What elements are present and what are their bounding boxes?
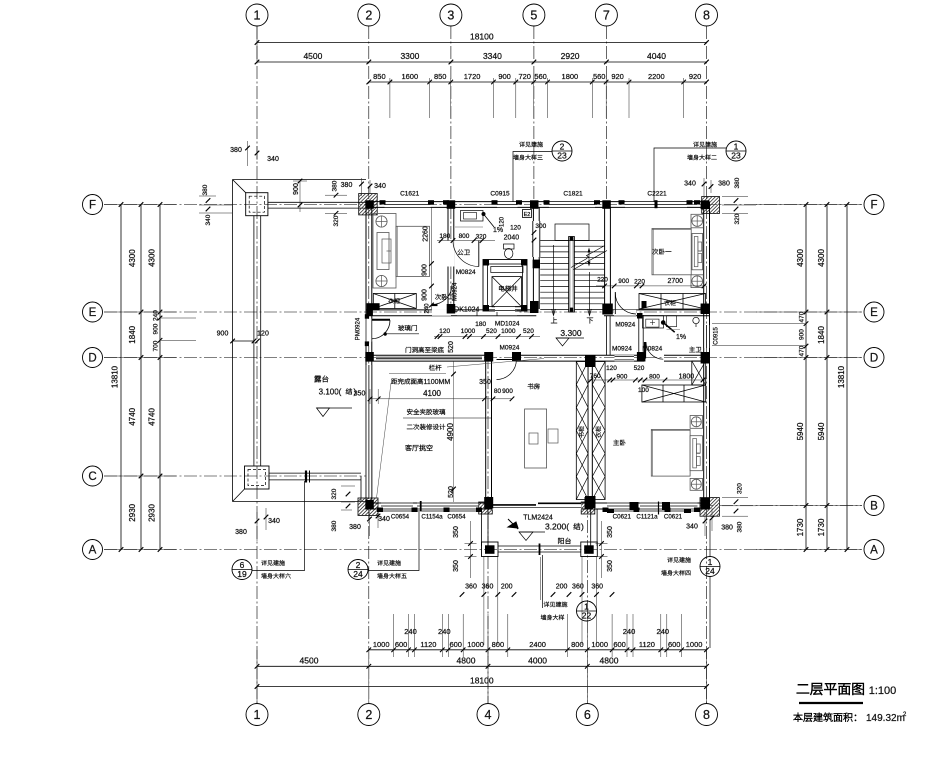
svg-text:380: 380 bbox=[235, 529, 247, 536]
svg-text:120: 120 bbox=[439, 328, 450, 335]
svg-text:180: 180 bbox=[439, 233, 450, 240]
svg-text:600: 600 bbox=[395, 640, 408, 649]
svg-text:340: 340 bbox=[684, 181, 696, 188]
svg-text:TLM2424: TLM2424 bbox=[523, 515, 553, 522]
svg-text:C: C bbox=[88, 471, 96, 483]
svg-text:2700: 2700 bbox=[668, 278, 684, 285]
svg-text:M0824: M0824 bbox=[456, 269, 476, 276]
svg-text:350: 350 bbox=[354, 391, 366, 398]
svg-text:520: 520 bbox=[634, 365, 645, 372]
svg-text:900: 900 bbox=[153, 323, 160, 334]
svg-text:240: 240 bbox=[153, 310, 160, 321]
svg-text:): ) bbox=[581, 522, 584, 532]
svg-text:19: 19 bbox=[237, 569, 247, 579]
svg-text:4500: 4500 bbox=[303, 51, 322, 61]
svg-text:1000: 1000 bbox=[501, 328, 516, 335]
svg-text:4800: 4800 bbox=[457, 655, 476, 665]
svg-text:720: 720 bbox=[518, 72, 531, 81]
svg-text:22: 22 bbox=[582, 611, 592, 621]
svg-text:760: 760 bbox=[590, 373, 601, 380]
svg-text:560: 560 bbox=[534, 72, 547, 81]
svg-text:4100: 4100 bbox=[423, 389, 441, 398]
svg-text:4300: 4300 bbox=[148, 249, 157, 267]
svg-text:520: 520 bbox=[486, 328, 497, 335]
svg-text:350: 350 bbox=[453, 526, 460, 538]
svg-text:2200: 2200 bbox=[648, 72, 665, 81]
svg-text:600: 600 bbox=[449, 640, 462, 649]
svg-text:4: 4 bbox=[485, 708, 492, 722]
svg-text:1000: 1000 bbox=[373, 640, 390, 649]
svg-text:360: 360 bbox=[591, 584, 603, 591]
svg-text:340: 340 bbox=[686, 524, 698, 531]
svg-text:4040: 4040 bbox=[647, 51, 666, 61]
svg-text:MD1024: MD1024 bbox=[495, 320, 520, 327]
svg-text:900: 900 bbox=[616, 374, 627, 381]
svg-text:M0924: M0924 bbox=[612, 346, 632, 353]
svg-text:2930: 2930 bbox=[148, 504, 157, 522]
svg-text:1840: 1840 bbox=[128, 325, 137, 343]
svg-text:F: F bbox=[89, 200, 96, 212]
svg-text:320: 320 bbox=[736, 483, 743, 494]
svg-text:1720: 1720 bbox=[464, 72, 481, 81]
svg-text:1120: 1120 bbox=[420, 640, 436, 649]
svg-text:380: 380 bbox=[230, 147, 242, 154]
svg-text:2920: 2920 bbox=[561, 51, 580, 61]
svg-text:4300: 4300 bbox=[817, 249, 826, 267]
svg-text:700: 700 bbox=[153, 340, 160, 351]
svg-text:1600: 1600 bbox=[401, 72, 418, 81]
svg-text:5: 5 bbox=[530, 8, 537, 22]
svg-text:3: 3 bbox=[447, 8, 454, 22]
svg-text:D: D bbox=[88, 353, 96, 365]
svg-text:C1821: C1821 bbox=[563, 190, 583, 197]
svg-text:8: 8 bbox=[703, 8, 710, 22]
svg-text:2: 2 bbox=[365, 708, 372, 722]
svg-text:800: 800 bbox=[649, 374, 660, 381]
svg-text:380: 380 bbox=[332, 180, 339, 191]
svg-text:1000: 1000 bbox=[461, 328, 476, 335]
svg-text:1: 1 bbox=[254, 708, 261, 722]
svg-text:120: 120 bbox=[257, 331, 269, 338]
svg-text:900: 900 bbox=[502, 388, 513, 395]
svg-text:13810: 13810 bbox=[111, 365, 120, 388]
svg-text:6: 6 bbox=[584, 708, 591, 722]
svg-text:100: 100 bbox=[638, 387, 649, 394]
svg-text:3300: 3300 bbox=[400, 51, 419, 61]
svg-text:23: 23 bbox=[557, 151, 567, 161]
svg-text:C0621: C0621 bbox=[664, 514, 683, 521]
svg-text:A: A bbox=[89, 545, 97, 557]
svg-text:340: 340 bbox=[374, 183, 386, 190]
svg-text:240: 240 bbox=[404, 627, 417, 636]
svg-text:340: 340 bbox=[378, 516, 390, 523]
svg-text:1000: 1000 bbox=[467, 640, 484, 649]
svg-text:1%: 1% bbox=[493, 227, 503, 234]
svg-text:1:100: 1:100 bbox=[869, 685, 897, 697]
svg-text:1100MM: 1100MM bbox=[424, 379, 451, 386]
svg-text:900: 900 bbox=[799, 329, 806, 340]
svg-text:2400: 2400 bbox=[529, 640, 546, 649]
svg-text:200: 200 bbox=[501, 584, 513, 591]
svg-text:4300: 4300 bbox=[128, 249, 137, 267]
svg-text:8: 8 bbox=[703, 708, 710, 722]
svg-text:23: 23 bbox=[731, 151, 741, 161]
svg-text:4500: 4500 bbox=[300, 655, 319, 665]
svg-text:C0621: C0621 bbox=[613, 514, 632, 521]
svg-text:120: 120 bbox=[500, 216, 506, 227]
svg-text:900: 900 bbox=[498, 72, 511, 81]
svg-text:470: 470 bbox=[799, 311, 806, 322]
svg-text:900: 900 bbox=[422, 289, 429, 301]
svg-text:B: B bbox=[870, 501, 878, 513]
svg-text:C0654: C0654 bbox=[447, 514, 466, 521]
svg-text:M0924: M0924 bbox=[453, 282, 459, 301]
svg-text:120: 120 bbox=[510, 225, 521, 232]
svg-text:E: E bbox=[89, 307, 97, 319]
svg-text:149.32m: 149.32m bbox=[866, 713, 905, 724]
svg-text:380: 380 bbox=[331, 520, 338, 531]
svg-text:M0924: M0924 bbox=[615, 322, 635, 329]
svg-text:1800: 1800 bbox=[562, 72, 579, 81]
svg-text:320: 320 bbox=[734, 213, 741, 224]
svg-text:520: 520 bbox=[523, 328, 534, 335]
svg-text:920: 920 bbox=[611, 72, 624, 81]
svg-text:18100: 18100 bbox=[470, 32, 494, 42]
svg-text:1000: 1000 bbox=[591, 640, 608, 649]
svg-text:240: 240 bbox=[623, 627, 636, 636]
svg-text:380: 380 bbox=[349, 524, 361, 531]
svg-text:600: 600 bbox=[613, 640, 626, 649]
svg-text:350: 350 bbox=[607, 526, 614, 538]
svg-text:240: 240 bbox=[657, 627, 670, 636]
svg-text:M0824: M0824 bbox=[642, 346, 662, 353]
svg-text:380: 380 bbox=[734, 177, 741, 188]
svg-text:1%: 1% bbox=[676, 334, 686, 341]
svg-text:360: 360 bbox=[465, 584, 477, 591]
svg-text:C1621: C1621 bbox=[400, 190, 420, 197]
svg-text:2930: 2930 bbox=[128, 503, 137, 521]
svg-text:320: 320 bbox=[331, 488, 338, 499]
svg-text:900: 900 bbox=[217, 331, 229, 338]
svg-text:200: 200 bbox=[556, 584, 568, 591]
svg-text:4300: 4300 bbox=[796, 249, 805, 267]
svg-text:380: 380 bbox=[721, 525, 733, 532]
svg-text:240: 240 bbox=[438, 627, 451, 636]
svg-text:380: 380 bbox=[202, 184, 209, 195]
svg-text:1840: 1840 bbox=[817, 326, 826, 344]
svg-text:1120: 1120 bbox=[639, 640, 655, 649]
svg-text:1: 1 bbox=[254, 8, 261, 22]
svg-text:340: 340 bbox=[205, 214, 212, 225]
svg-text:4740: 4740 bbox=[128, 407, 137, 425]
svg-text:900: 900 bbox=[618, 278, 629, 285]
svg-text:13810: 13810 bbox=[837, 365, 846, 388]
svg-text:320: 320 bbox=[333, 215, 340, 226]
svg-text:1730: 1730 bbox=[796, 518, 805, 536]
svg-text:120: 120 bbox=[606, 365, 617, 372]
svg-text:7: 7 bbox=[603, 8, 610, 22]
svg-text:2260: 2260 bbox=[423, 226, 430, 242]
svg-text:360: 360 bbox=[572, 584, 584, 591]
svg-text:E2: E2 bbox=[524, 212, 531, 218]
svg-text:1000: 1000 bbox=[686, 640, 703, 649]
svg-text:2: 2 bbox=[365, 8, 372, 22]
svg-text:380: 380 bbox=[736, 521, 743, 532]
svg-text:4800: 4800 bbox=[600, 655, 619, 665]
svg-text:340: 340 bbox=[267, 156, 279, 163]
svg-text:DK1024: DK1024 bbox=[454, 307, 479, 314]
svg-text:380: 380 bbox=[341, 182, 353, 189]
svg-text:240: 240 bbox=[425, 303, 431, 314]
svg-text:C1121a: C1121a bbox=[636, 514, 658, 521]
svg-text:300: 300 bbox=[535, 223, 546, 230]
svg-text:D: D bbox=[870, 353, 878, 365]
svg-text:800: 800 bbox=[459, 233, 470, 240]
svg-text:350: 350 bbox=[453, 560, 460, 572]
svg-text:3.300: 3.300 bbox=[560, 328, 582, 338]
svg-text:1730: 1730 bbox=[817, 518, 826, 536]
svg-text:80: 80 bbox=[494, 388, 502, 395]
svg-text:18100: 18100 bbox=[470, 675, 494, 685]
svg-text:900: 900 bbox=[422, 264, 429, 276]
svg-text:360: 360 bbox=[482, 584, 494, 591]
svg-text:C1154a: C1154a bbox=[421, 514, 443, 521]
svg-text:E: E bbox=[870, 307, 878, 319]
svg-text:850: 850 bbox=[434, 72, 447, 81]
svg-text:920: 920 bbox=[689, 72, 702, 81]
svg-text:C2221: C2221 bbox=[647, 190, 667, 197]
svg-text:3.100(: 3.100( bbox=[319, 388, 342, 397]
svg-text:560: 560 bbox=[593, 72, 606, 81]
svg-text:F: F bbox=[870, 200, 877, 212]
svg-text:520: 520 bbox=[448, 341, 455, 353]
svg-text:4740: 4740 bbox=[148, 408, 157, 426]
svg-text:350: 350 bbox=[607, 560, 614, 572]
svg-text:220: 220 bbox=[597, 277, 608, 284]
svg-text:2040: 2040 bbox=[504, 235, 520, 242]
svg-text:5940: 5940 bbox=[796, 422, 805, 440]
svg-text:C0915: C0915 bbox=[714, 327, 720, 345]
svg-text:24: 24 bbox=[705, 566, 715, 576]
svg-text:PM0924: PM0924 bbox=[356, 317, 362, 340]
svg-text:A: A bbox=[870, 545, 878, 557]
svg-text:3340: 3340 bbox=[483, 51, 502, 61]
svg-text:1800: 1800 bbox=[679, 374, 695, 381]
svg-text:380: 380 bbox=[718, 181, 730, 188]
svg-text:C0915: C0915 bbox=[490, 190, 510, 197]
svg-text:600: 600 bbox=[668, 640, 681, 649]
svg-text:350: 350 bbox=[479, 379, 491, 386]
svg-text:4000: 4000 bbox=[528, 655, 547, 665]
svg-text:180: 180 bbox=[475, 321, 486, 328]
svg-text:3.200(: 3.200( bbox=[545, 522, 569, 532]
svg-text:470: 470 bbox=[799, 345, 806, 356]
svg-text:220: 220 bbox=[634, 278, 645, 285]
svg-text:320: 320 bbox=[476, 234, 487, 241]
svg-text:850: 850 bbox=[373, 72, 386, 81]
svg-text:24: 24 bbox=[353, 569, 363, 579]
svg-text:5940: 5940 bbox=[817, 422, 826, 440]
svg-text:900: 900 bbox=[293, 183, 300, 195]
svg-text:340: 340 bbox=[268, 518, 280, 525]
svg-text:C0654: C0654 bbox=[391, 514, 410, 521]
svg-text:M0924: M0924 bbox=[499, 345, 519, 352]
